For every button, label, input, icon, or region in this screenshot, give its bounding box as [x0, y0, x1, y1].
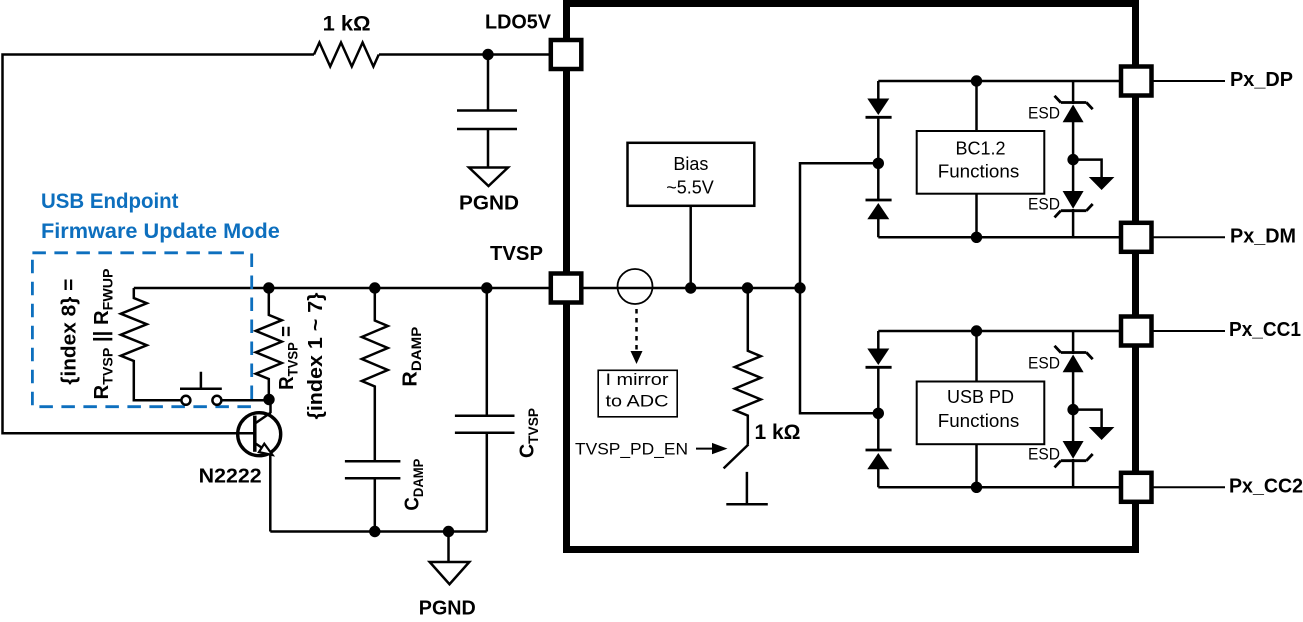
- wire: ESD mid to internal ground arrow CC: [1073, 410, 1102, 427]
- node: rail feed junction: [794, 282, 805, 293]
- blue dashed box: firmware update mode group: [32, 253, 251, 407]
- wire: ESD column DP: [1072, 81, 1075, 237]
- resistor 1 kOhm (top): [314, 43, 379, 67]
- capacitor C_DAMP: [345, 461, 401, 531]
- internal ground arrow (DP/DM): [1089, 177, 1115, 190]
- node: rail dot at C_TVSP top: [481, 282, 492, 293]
- svg-text:RTVSP =: RTVSP =: [276, 326, 301, 390]
- dashed arrow to I mirror: [635, 309, 638, 351]
- svg-text:PGND: PGND: [419, 598, 476, 620]
- diode D2 (from Px_DM): [866, 199, 892, 202]
- svg-text:TVSP: TVSP: [490, 243, 543, 265]
- svg-text:Px_DM: Px_DM: [1230, 225, 1296, 247]
- wire: switch to collector node: [221, 399, 269, 402]
- wire: Bias to TVSP rail: [689, 206, 692, 288]
- diode D1 (from Px_DP): [867, 99, 889, 116]
- diode D3 (from Px_CC1): [867, 349, 889, 366]
- svg-text:USB PD: USB PD: [947, 387, 1014, 407]
- pin Px_DM: [1121, 223, 1152, 252]
- pin TVSP: [551, 274, 582, 303]
- ESD zener Z2: [1063, 191, 1084, 209]
- node: BC1.2 top: [971, 75, 982, 86]
- svg-text:to ADC: to ADC: [606, 392, 669, 411]
- wire: USB PD box to rails: [975, 331, 978, 487]
- svg-text:TVSP_PD_EN: TVSP_PD_EN: [575, 440, 688, 459]
- pin LDO5V: [551, 40, 582, 69]
- svg-text:PGND: PGND: [459, 193, 519, 215]
- wire: Px_CC1 rail: [878, 330, 1136, 333]
- svg-text:RTVSP || RFWUP: RTVSP || RFWUP: [91, 269, 116, 400]
- svg-text:1 kΩ: 1 kΩ: [323, 13, 371, 36]
- ground PGND (bottom): [447, 532, 450, 562]
- wire: ESD mid to internal ground arrow: [1073, 160, 1102, 177]
- node: USB PD top: [971, 325, 982, 336]
- wire: emitter bottom rail: [270, 530, 487, 533]
- wire: BC1.2 box to rails: [975, 81, 978, 237]
- wire: Px_CC2 rail: [878, 486, 1136, 489]
- node: USB PD bottom: [971, 482, 982, 493]
- pin Px_CC2: [1121, 473, 1152, 502]
- svg-text:Px_DP: Px_DP: [1230, 69, 1293, 91]
- svg-text:Functions: Functions: [938, 411, 1020, 431]
- node: diode mid junction DP/DM: [873, 158, 884, 169]
- arrow to switch: [696, 448, 714, 450]
- node: rail dot at R_TVSP top: [263, 282, 274, 293]
- wire: base rail up left side and across top to LDO5V: [3, 55, 315, 434]
- capacitor (LDO5V bypass): [457, 55, 517, 168]
- svg-text:Firmware Update Mode: Firmware Update Mode: [41, 220, 280, 243]
- wire: diode column CC: [877, 331, 880, 487]
- svg-text:ESD: ESD: [1028, 104, 1060, 123]
- switch TVSP_PD_EN blade: [724, 445, 749, 469]
- svg-text:I mirror: I mirror: [606, 370, 669, 389]
- wire: TVSP rail: [134, 287, 800, 290]
- wire: pin to label Px_DP: [1153, 80, 1225, 82]
- node: rail dot at R_DAMP top: [369, 282, 380, 293]
- ESD zener Z3: [1055, 346, 1093, 359]
- wire: pin to label Px_CC2: [1153, 486, 1225, 488]
- node: ESD mid junction CC: [1067, 404, 1078, 415]
- svg-text:N2222: N2222: [199, 465, 262, 487]
- svg-text:Functions: Functions: [938, 162, 1020, 182]
- resistor R_TVSP: [256, 288, 282, 400]
- wire: Px_DM rail: [878, 236, 1136, 239]
- node: BC1.2 bottom: [971, 232, 982, 243]
- svg-text:RDAMP: RDAMP: [399, 327, 424, 387]
- push-button switch S1: [181, 396, 190, 405]
- ground (signal): [726, 472, 768, 504]
- transistor Q1 N2222: [238, 413, 281, 456]
- node: collector junction: [263, 394, 274, 405]
- current probe circle: [618, 269, 653, 304]
- svg-text:ESD: ESD: [1028, 354, 1060, 373]
- box: I mirror to ADC: [598, 370, 677, 417]
- resistor R_FWUP (inside dashed box): [121, 288, 182, 400]
- wire: ESD column CC: [1072, 331, 1075, 487]
- svg-text:{index 1 ~ 7}: {index 1 ~ 7}: [305, 292, 327, 419]
- svg-text:ESD: ESD: [1028, 445, 1060, 464]
- ESD zener Z1: [1055, 96, 1093, 109]
- box: Bias ~5.5V: [628, 143, 755, 206]
- svg-text:BC1.2: BC1.2: [955, 139, 1005, 159]
- svg-text:CTVSP: CTVSP: [517, 408, 542, 458]
- node: Bias junction: [685, 282, 696, 293]
- svg-text:LDO5V: LDO5V: [485, 12, 552, 34]
- box: USB PD Functions: [917, 382, 1045, 445]
- svg-text:ESD: ESD: [1028, 195, 1060, 214]
- resistor 1 kOhm (pulldown): [735, 288, 761, 445]
- svg-text:1 kΩ: 1 kΩ: [755, 421, 801, 444]
- wire: TVSP rail feed to diode sections: [800, 163, 878, 413]
- node: bottom rail dot at C_DAMP: [369, 526, 380, 537]
- node: ESD mid junction DP/DM: [1067, 154, 1078, 165]
- diode D4 (from Px_CC2): [866, 449, 892, 452]
- resistor R_DAMP: [362, 288, 388, 461]
- wire: Px_DP rail: [878, 80, 1136, 83]
- wire: pin to label Px_DM: [1153, 236, 1225, 238]
- svg-text:Bias: Bias: [673, 154, 708, 174]
- pin Px_CC1: [1121, 317, 1152, 346]
- node: bottom rail dot at PGND drop: [443, 526, 454, 537]
- ESD zener Z4: [1063, 441, 1084, 459]
- node: LDO5V junction: [482, 49, 493, 60]
- svg-text:Px_CC2: Px_CC2: [1229, 475, 1303, 497]
- svg-text:USB Endpoint: USB Endpoint: [41, 190, 179, 213]
- capacitor C_TVSP: [455, 288, 515, 532]
- node: diode mid junction CC: [873, 408, 884, 419]
- svg-text:{index 8} =: {index 8} =: [59, 279, 81, 385]
- svg-text:Px_CC1: Px_CC1: [1229, 319, 1301, 341]
- box: BC1.2 Functions: [917, 131, 1045, 194]
- wire: resistor to LDO5V pin: [379, 53, 552, 56]
- wire: diode column DP: [877, 81, 880, 237]
- svg-text:CDAMP: CDAMP: [401, 459, 426, 511]
- pin Px_DP: [1121, 67, 1152, 96]
- internal ground arrow (CC): [1089, 427, 1115, 440]
- svg-text:~5.5V: ~5.5V: [666, 178, 714, 198]
- node: pulldown junction: [742, 282, 753, 293]
- wire: pin to label Px_CC1: [1153, 330, 1225, 332]
- ground PGND (top): [469, 168, 508, 187]
- IC body: [567, 4, 1136, 550]
